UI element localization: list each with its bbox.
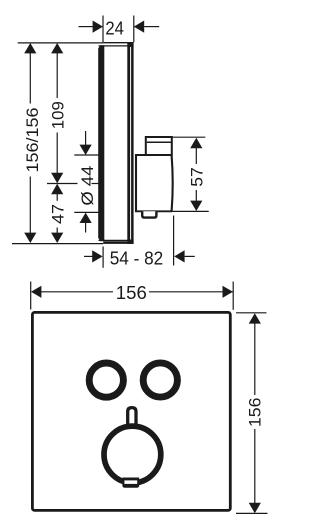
dim 57: bottom arrow — [190, 201, 202, 211]
svg-text:24: 24 — [105, 19, 124, 39]
side view: plate bottom thin line — [99, 239, 134, 241]
front dim 156 top: right extension line — [232, 282, 234, 310]
front dim 156 right: upper line segment — [254, 323, 256, 395]
left dims: top extension line — [18, 42, 104, 44]
front dim 156 right: lower line segment — [254, 429, 256, 503]
dim 24: right extension line — [133, 16, 135, 43]
front view: knob bottom tab white slot — [124, 480, 137, 484]
valve body: bottom tab — [142, 211, 156, 217]
svg-text:109: 109 — [49, 101, 68, 129]
dim D44: lower tail line — [85, 223, 87, 233]
front dim 156 top: left arrow — [31, 286, 41, 298]
dim 156/156: lower line segment — [29, 177, 31, 234]
front view: knob stub marker — [128, 408, 136, 424]
front dim 156 right: bottom arrow — [249, 503, 261, 513]
dim 54-82: left tail line — [84, 255, 93, 257]
dim D44: upper tail line — [85, 131, 87, 145]
dim D44: top tick line — [74, 154, 99, 156]
side view: plate bottom thick edge — [103, 241, 133, 244]
dim 109: upper line segment — [56, 53, 58, 99]
side view: plate back bar at wall — [127, 42, 133, 244]
dim 47: top arrow — [51, 184, 63, 194]
front dim 156 right: bottom extension line — [236, 512, 268, 514]
front view: plate outline — [32, 312, 230, 510]
dim 47: lower line segment — [56, 228, 58, 234]
dim 24: right tail line — [144, 26, 159, 28]
svg-text:156: 156 — [245, 398, 264, 428]
dim 57: top arrow — [190, 138, 202, 148]
dim 57: lower line segment — [195, 190, 197, 201]
svg-text:54 - 82: 54 - 82 — [110, 248, 164, 268]
side view: plate second top line — [99, 45, 134, 47]
dim 57: top extension line — [172, 136, 206, 138]
dim 109: top arrow — [51, 43, 63, 53]
valve body: top box outline — [146, 137, 172, 156]
dim 47: bottom arrow — [51, 233, 63, 243]
dim D44: lower arrow pointing up — [80, 213, 92, 223]
svg-text:Ø 44: Ø 44 — [78, 166, 97, 206]
front dim 156 top: left line segment — [41, 291, 113, 293]
front view: right select button — [143, 363, 177, 397]
dim D44: upper arrow pointing down — [80, 145, 92, 155]
dim 156/156: top arrow — [24, 43, 36, 53]
side view: plate front face thick bar — [98, 45, 104, 241]
dim 54-82: left extension line — [102, 247, 104, 268]
dim 24: left extension line — [102, 16, 104, 43]
side view: plate top edge line — [103, 42, 133, 44]
side view: white stripe in back bar — [130, 47, 131, 240]
front dim 156 top: right line segment — [149, 291, 233, 293]
left dims: bottom extension line — [12, 243, 103, 245]
front view: knob bottom tab — [122, 478, 139, 488]
dim 54-82: left arrow — [92, 250, 102, 262]
front dim 156 right: top arrow — [249, 313, 261, 323]
dim 54-82: right extension line — [173, 216, 175, 266]
dim 109: lower line segment — [56, 133, 58, 174]
dim 156/156: bottom arrow — [24, 233, 36, 243]
dim 54-82: right arrow — [174, 250, 184, 262]
dim 57: upper line segment — [195, 148, 197, 164]
center line of handle: right segment — [92, 183, 100, 185]
svg-text:57: 57 — [188, 167, 207, 187]
dim 156/156: upper line segment — [29, 53, 31, 104]
front dim 156 top: left extension line — [30, 282, 32, 310]
dim 54-82: right tail line — [185, 255, 195, 257]
svg-text:156/156: 156/156 — [23, 108, 42, 173]
svg-text:156: 156 — [116, 283, 147, 303]
front view: thermostat knob circle — [104, 426, 161, 483]
front dim 156 right: top extension line — [236, 312, 267, 314]
front view: left select button — [89, 363, 123, 397]
dim 24: right arrow — [134, 21, 144, 33]
dim 24: left tail line — [79, 26, 93, 28]
valve body: top box seam line — [147, 141, 171, 143]
dim 47: upper line segment — [56, 194, 58, 201]
dim 109: bottom arrow — [51, 173, 63, 183]
center line of handle: left segment — [47, 183, 78, 185]
valve body: main body outline — [136, 155, 173, 211]
dim 24: left arrow — [93, 21, 103, 33]
valve body: bottom edge — [135, 210, 172, 212]
dim D44: bottom tick line — [74, 211, 100, 213]
dim 57: bottom extension line — [157, 210, 209, 212]
front dim 156 top: right arrow — [223, 286, 233, 298]
svg-text:47: 47 — [48, 204, 67, 224]
